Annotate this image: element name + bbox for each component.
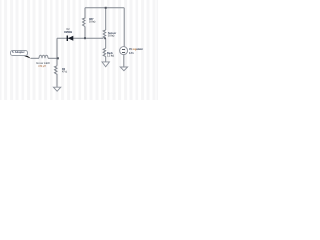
regulator U1 internal marks (122, 48, 125, 51)
label D1 value (63, 31, 73, 34)
wire right branch vertical lower (123, 55, 125, 67)
resistor R1 (83, 17, 86, 27)
inductor L1 (39, 55, 48, 58)
wire left branch vertical upper (84, 8, 86, 17)
wire left column to ground (56, 76, 58, 87)
wire mid branch between resistors (105, 38, 107, 48)
wire mid branch vertical upper (105, 8, 107, 30)
wire left branch vertical lower (84, 27, 86, 39)
label R2 (108, 32, 116, 37)
wire diode row (57, 37, 103, 39)
node junction inductor to column (57, 57, 59, 59)
ground mid (102, 62, 109, 67)
ground right (120, 67, 127, 71)
annotation callout tail (24, 56, 32, 59)
wire mid branch to ground (105, 57, 107, 62)
annotation callout text (12, 51, 25, 54)
resistor R4 (55, 66, 58, 76)
ground left (53, 87, 60, 91)
annotation callout box (10, 50, 28, 57)
wire top rail (85, 7, 124, 9)
regulator U1 (120, 47, 128, 55)
node junction mid on diode row (104, 37, 106, 39)
resistor R2 (103, 30, 106, 38)
node junction top mid (105, 7, 107, 9)
label L1 (36, 62, 48, 67)
label R1 (89, 18, 96, 23)
wire input stub (31, 57, 39, 59)
node junction left on diode row (84, 37, 86, 39)
label U1 (129, 48, 143, 51)
wire inductor to left column (48, 57, 57, 59)
label D1 name (63, 28, 73, 31)
wire right branch vertical upper (123, 8, 125, 47)
diode D1 (68, 36, 74, 41)
label R4 (62, 68, 67, 73)
label R3 (107, 52, 114, 57)
wire left column down from diode row (56, 38, 58, 66)
resistor R3 (103, 48, 106, 56)
